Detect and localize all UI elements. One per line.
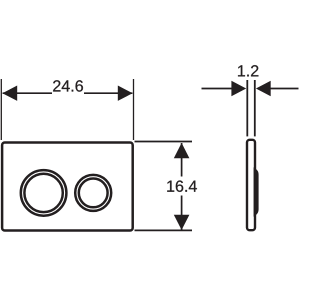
small button inner ring bbox=[79, 179, 108, 208]
dimension 16.4 up arrowhead bbox=[174, 143, 190, 158]
side view button profile bump bbox=[254, 167, 259, 217]
dimension 1.2 right line bbox=[270, 88, 299, 90]
dimension 1.2 right arrowhead bbox=[256, 81, 271, 96]
dimension 24.6 right extension line bbox=[133, 79, 135, 140]
dimension 16.4 label background bbox=[164, 177, 200, 196]
dimension 16.4 down arrowhead bbox=[174, 215, 190, 230]
dimension 24.6 left extension line bbox=[0, 79, 2, 140]
front view plate outline bbox=[2, 143, 133, 231]
small button outer ring bbox=[75, 175, 111, 211]
dimension 24.6 left arrowhead bbox=[2, 86, 17, 101]
dimension 16.4 line bbox=[181, 143, 183, 230]
dimension 24.6 label bbox=[53, 80, 83, 91]
dimension 1.2 left line bbox=[202, 88, 233, 90]
dimension 1.2 right extension line bbox=[254, 80, 256, 136]
dimension 1.2 left arrowhead bbox=[231, 81, 246, 96]
big button inner ring bbox=[24, 174, 62, 212]
side view plate outline bbox=[247, 140, 255, 230]
dimension 1.2 label bbox=[238, 65, 258, 76]
dimension 16.4 bottom extension line bbox=[135, 229, 193, 231]
dimension 24.6 line right segment bbox=[84, 92, 132, 94]
dimension 16.4 label bbox=[167, 180, 197, 191]
dimension 24.6 line left segment bbox=[3, 92, 52, 94]
dimension 24.6 right arrowhead bbox=[118, 86, 133, 101]
big button outer ring bbox=[21, 170, 67, 216]
dimension 16.4 top extension line bbox=[135, 141, 193, 143]
dimension 1.2 left extension line bbox=[246, 80, 248, 136]
